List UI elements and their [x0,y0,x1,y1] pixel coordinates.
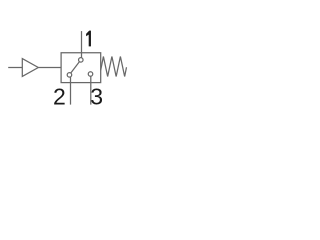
svg-text:2: 2 [53,83,66,109]
svg-text:3: 3 [90,83,103,109]
